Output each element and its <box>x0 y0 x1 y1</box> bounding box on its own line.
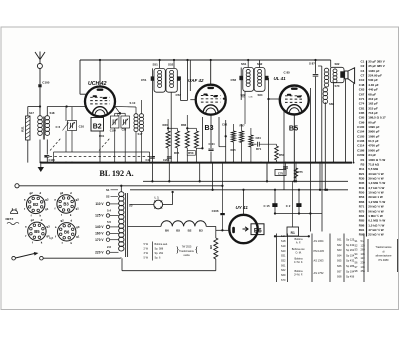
svg-text:A. F.: A. F. <box>296 241 301 245</box>
svg-text:g3: g3 <box>76 225 80 229</box>
svg-text:Bobina: Bobina <box>294 269 303 273</box>
svg-text:f: f <box>55 234 56 238</box>
svg-text:S61: S61 <box>337 238 342 242</box>
svg-text:R97: R97 <box>240 124 246 128</box>
svg-text:S2: S2 <box>354 243 358 247</box>
svg-text:d: d <box>39 191 41 195</box>
svg-text:C186: C186 <box>357 148 365 152</box>
svg-text:S3: S3 <box>129 204 133 208</box>
svg-text:S62: S62 <box>335 62 340 66</box>
svg-text:104: 104 <box>361 265 366 269</box>
svg-text:Sp 432: Sp 432 <box>346 243 355 247</box>
svg-text:Sp 125: Sp 125 <box>346 238 355 242</box>
svg-text:1090 pF: 1090 pF <box>368 125 379 129</box>
svg-text:C67: C67 <box>359 92 365 96</box>
svg-text:R71: R71 <box>359 205 365 209</box>
svg-text:R11: R11 <box>359 167 365 171</box>
svg-text:PM 1445: PM 1445 <box>314 249 325 253</box>
svg-text:2.6: 2.6 <box>107 245 111 249</box>
svg-text:4700 pF: 4700 pF <box>368 144 379 148</box>
svg-text:R3: R3 <box>360 162 364 166</box>
svg-text:Bobina aud.: Bobina aud. <box>155 243 169 246</box>
svg-text:B5: B5 <box>34 229 40 234</box>
svg-text:5,5 MΩ: 5,5 MΩ <box>368 167 379 171</box>
svg-text:Sp 261: Sp 261 <box>346 248 355 252</box>
svg-text:S61: S61 <box>281 263 286 267</box>
svg-text:S17: S17 <box>281 234 286 238</box>
svg-text:C10: C10 <box>79 124 85 128</box>
svg-text:160 V: 160 V <box>95 232 104 236</box>
svg-text:g3: g3 <box>45 198 49 202</box>
svg-text:S61: S61 <box>241 62 247 66</box>
svg-text:B6: B6 <box>165 228 169 232</box>
svg-text:NETZ: NETZ <box>6 217 14 221</box>
svg-text:g1: g1 <box>76 234 80 238</box>
svg-text:R21: R21 <box>359 172 365 176</box>
svg-text:f: f <box>24 207 25 211</box>
svg-text:d: d <box>70 219 72 223</box>
svg-text:S5: S5 <box>354 256 358 260</box>
svg-text:S51: S51 <box>281 254 286 258</box>
svg-text:125: 125 <box>361 243 366 247</box>
svg-text:R53: R53 <box>188 151 194 155</box>
svg-text:315 pF: 315 pF <box>368 106 378 110</box>
svg-text:g1: g1 <box>45 207 49 211</box>
svg-text:g3: g3 <box>46 225 50 229</box>
svg-text:35 µF 385 V: 35 µF 385 V <box>368 64 384 68</box>
svg-text:456: 456 <box>361 269 366 273</box>
svg-text:47 kΩ ½ W: 47 kΩ ½ W <box>368 228 383 232</box>
svg-text:B3: B3 <box>63 202 69 207</box>
svg-text:d: d <box>41 218 43 222</box>
svg-text:S1: S1 <box>106 188 110 192</box>
svg-text:34 pF: 34 pF <box>368 153 376 157</box>
svg-text:1340 pF: 1340 pF <box>368 69 379 73</box>
svg-text:S 87: S 87 <box>309 62 315 66</box>
svg-text:S6: S6 <box>354 261 358 265</box>
svg-text:S 10: S 10 <box>130 101 136 105</box>
svg-text:S20: S20 <box>281 249 286 253</box>
svg-text:R41: R41 <box>359 186 365 190</box>
svg-text:S52: S52 <box>281 258 286 262</box>
svg-text:1000 Ω ½ W: 1000 Ω ½ W <box>368 158 385 162</box>
svg-text:R53: R53 <box>359 195 365 199</box>
svg-text:S1: S1 <box>354 239 358 243</box>
svg-text:140 V: 140 V <box>95 225 104 229</box>
svg-text:5.4: 5.4 <box>107 209 111 213</box>
svg-text:S69: S69 <box>281 273 286 277</box>
svg-text:61,5 µF: 61,5 µF <box>368 139 378 143</box>
svg-text:10 kΩ ½ W: 10 kΩ ½ W <box>368 191 383 195</box>
svg-text:1090 pF: 1090 pF <box>368 134 379 138</box>
svg-text:1,5 kΩ ¼ W: 1,5 kΩ ¼ W <box>368 223 384 227</box>
svg-text:R75: R75 <box>298 170 304 174</box>
svg-text:g1: g1 <box>76 207 80 211</box>
svg-text:Sp 194: Sp 194 <box>346 269 355 273</box>
svg-text:C38: C38 <box>122 129 127 132</box>
svg-text:PS 4080: PS 4080 <box>379 258 390 262</box>
svg-text:S17: S17 <box>29 111 34 115</box>
svg-text:260: 260 <box>361 248 366 252</box>
svg-text:C 2: C 2 <box>286 204 291 208</box>
svg-text:B2: B2 <box>93 124 102 131</box>
svg-text:B2: B2 <box>33 202 39 207</box>
svg-text:1 MΩ ¼ W: 1 MΩ ¼ W <box>368 214 383 218</box>
svg-text:C104: C104 <box>110 129 117 132</box>
svg-text:C58: C58 <box>231 78 237 82</box>
svg-text:C4: C4 <box>360 69 364 73</box>
svg-text:Trasformatore: Trasformatore <box>375 245 392 249</box>
svg-text:Bobina: Bobina <box>294 257 303 261</box>
svg-text:g2: g2 <box>29 191 33 195</box>
svg-text:UCH 42: UCH 42 <box>88 81 107 87</box>
svg-text:C75: C75 <box>278 171 284 175</box>
svg-text:S19: S19 <box>281 244 286 248</box>
svg-text:440 pF: 440 pF <box>368 88 378 92</box>
svg-text:C 15: C 15 <box>264 204 270 208</box>
svg-text:UY 41: UY 41 <box>236 205 249 210</box>
svg-text:Sp. 6: Sp. 6 <box>155 257 161 260</box>
svg-text:4,7 kΩ ½ W: 4,7 kΩ ½ W <box>368 186 384 190</box>
svg-text:R35: R35 <box>359 181 365 185</box>
svg-text:56 kΩ ½ W: 56 kΩ ½ W <box>368 209 383 213</box>
svg-text:B6: B6 <box>254 227 262 234</box>
svg-text:Trasformatore: Trasformatore <box>179 250 195 253</box>
svg-text:L 1: L 1 <box>155 195 160 199</box>
svg-text:3 W: 3 W <box>144 252 149 255</box>
svg-text:1ª M. F.: 1ª M. F. <box>294 260 303 264</box>
svg-text:C 6: C 6 <box>56 125 61 129</box>
svg-text:R21: R21 <box>21 126 25 132</box>
svg-text:R05: R05 <box>174 151 180 155</box>
svg-text:C95: C95 <box>359 116 365 120</box>
svg-text:C1: C1 <box>360 60 364 64</box>
svg-text:224.90 pF: 224.90 pF <box>368 74 382 78</box>
svg-text:S8: S8 <box>354 269 358 273</box>
svg-text:43 kΩ ½ W: 43 kΩ ½ W <box>368 172 383 176</box>
svg-text:0,1 MΩ ½ W: 0,1 MΩ ½ W <box>368 219 385 223</box>
svg-text:S18: S18 <box>50 111 55 115</box>
svg-text:uscita: uscita <box>183 254 190 257</box>
svg-text:S64: S64 <box>337 253 342 257</box>
svg-text:22 kΩ ½ W: 22 kΩ ½ W <box>368 233 383 237</box>
svg-text:5 W: 5 W <box>144 257 149 260</box>
svg-text:C99: C99 <box>359 120 365 124</box>
svg-text:Sp 432: Sp 432 <box>346 259 355 263</box>
svg-text:S65: S65 <box>337 259 342 263</box>
svg-text:S63: S63 <box>337 248 342 252</box>
svg-text:4.30 µF: 4.30 µF <box>368 83 378 87</box>
svg-text:R86: R86 <box>359 223 365 227</box>
svg-text:220 V: 220 V <box>95 251 104 255</box>
svg-text:C92: C92 <box>222 123 228 127</box>
svg-text:5 W: 5 W <box>144 243 149 246</box>
svg-text:C106: C106 <box>212 209 219 213</box>
svg-text:B5: B5 <box>176 228 180 232</box>
svg-text:B3: B3 <box>199 228 203 232</box>
svg-text:S70: S70 <box>335 84 340 88</box>
svg-text:Bobina: Bobina <box>294 237 303 241</box>
svg-text:AS 1363: AS 1363 <box>314 259 325 263</box>
svg-text:110 V: 110 V <box>95 202 104 206</box>
svg-text:312 pF: 312 pF <box>368 97 378 101</box>
svg-text:S52: S52 <box>168 62 174 66</box>
svg-text:S2: S2 <box>106 194 110 198</box>
svg-text:AS 1004: AS 1004 <box>314 239 325 243</box>
svg-text:C81: C81 <box>359 106 365 110</box>
svg-text:7W 2925: 7W 2925 <box>182 246 192 249</box>
svg-text:C74: C74 <box>359 102 365 106</box>
svg-text:C2: C2 <box>360 64 364 68</box>
svg-text:S70: S70 <box>281 278 286 282</box>
svg-text:C100: C100 <box>42 80 50 84</box>
svg-text:B3: B3 <box>205 125 214 132</box>
svg-text:3900 pF: 3900 pF <box>368 130 379 134</box>
svg-text:C 85: C 85 <box>284 71 291 75</box>
svg-text:S62: S62 <box>281 268 286 272</box>
svg-text:Sp. 291: Sp. 291 <box>155 252 164 255</box>
svg-text:alimentazione: alimentazione <box>375 254 392 258</box>
svg-text:C84: C84 <box>256 136 262 140</box>
svg-text:R1: R1 <box>291 231 295 235</box>
svg-text:2 W: 2 W <box>144 247 149 250</box>
svg-text:C51: C51 <box>141 78 147 82</box>
svg-text:{: { <box>195 245 199 255</box>
svg-text:f: f <box>25 234 26 238</box>
svg-text:39 kΩ 1 W: 39 kΩ 1 W <box>368 195 383 199</box>
svg-text:R85: R85 <box>359 219 365 223</box>
svg-text:f: f <box>31 213 32 217</box>
svg-text:162 pF: 162 pF <box>368 102 378 106</box>
svg-text:UL 41: UL 41 <box>274 76 287 81</box>
svg-text:C10: C10 <box>359 78 365 82</box>
svg-text:C63: C63 <box>359 88 365 92</box>
svg-text:C100: C100 <box>357 125 365 129</box>
svg-text:S51: S51 <box>153 62 159 66</box>
svg-text:S4: S4 <box>354 252 358 256</box>
svg-text:B2: B2 <box>188 228 192 232</box>
svg-text:g3: g3 <box>76 197 80 201</box>
svg-text:g2: g2 <box>60 219 64 223</box>
svg-text:f: f <box>55 207 56 211</box>
svg-text:C85: C85 <box>359 111 365 115</box>
svg-text:BL 192 A.: BL 192 A. <box>99 169 133 178</box>
svg-text:R86: R86 <box>181 123 187 127</box>
svg-text:C104: C104 <box>209 143 216 146</box>
svg-text:5.5: 5.5 <box>107 220 111 224</box>
svg-text:Sp 154: Sp 154 <box>346 253 355 257</box>
svg-text:186,5 Ω 0.17: 186,5 Ω 0.17 <box>368 116 386 120</box>
svg-text:O. M.: O. M. <box>295 250 302 254</box>
svg-text:125 V: 125 V <box>95 214 104 218</box>
svg-text:S18: S18 <box>281 239 286 243</box>
svg-text:S66: S66 <box>337 264 342 268</box>
svg-text:Sp 286: Sp 286 <box>346 264 355 268</box>
svg-text:R84: R84 <box>359 214 365 218</box>
svg-text:R71: R71 <box>256 147 262 151</box>
svg-text:S62: S62 <box>337 243 342 247</box>
svg-text:R1: R1 <box>360 158 364 162</box>
svg-text:71,8 kΩ: 71,8 kΩ <box>368 162 379 166</box>
svg-text:Bobina osc.: Bobina osc. <box>292 247 306 251</box>
svg-text:R30: R30 <box>163 123 169 127</box>
svg-text:C106: C106 <box>357 139 365 143</box>
svg-text:C43: C43 <box>146 158 151 162</box>
svg-text:S67: S67 <box>337 269 342 273</box>
svg-text:2ª M. F.: 2ª M. F. <box>294 273 303 277</box>
svg-text:R91: R91 <box>359 228 365 232</box>
svg-text:90 pF: 90 pF <box>368 120 376 124</box>
svg-text:C114: C114 <box>357 144 364 148</box>
svg-text:134: 134 <box>361 252 366 256</box>
svg-text:Sp. 588: Sp. 588 <box>155 247 164 250</box>
svg-text:110: 110 <box>361 256 366 260</box>
svg-text:R8: R8 <box>209 245 213 249</box>
svg-text:R30: R30 <box>359 177 365 181</box>
svg-text:f: f <box>62 241 63 245</box>
svg-text:C7: C7 <box>360 74 364 78</box>
svg-text:UAF 42: UAF 42 <box>188 78 204 83</box>
svg-text:R50: R50 <box>359 191 365 195</box>
svg-text:1,3 MΩ ½ W: 1,3 MΩ ½ W <box>368 181 385 185</box>
svg-text:Kg3: Kg3 <box>49 237 54 240</box>
svg-text:170 V: 170 V <box>95 238 104 242</box>
svg-text:C204: C204 <box>163 158 170 162</box>
svg-text:S68: S68 <box>337 275 342 279</box>
svg-text:f: f <box>32 240 33 244</box>
svg-text:C48: C48 <box>359 83 365 87</box>
svg-text:C105: C105 <box>49 158 56 162</box>
svg-text:R75: R75 <box>359 209 365 213</box>
svg-text:530 pF: 530 pF <box>368 78 378 82</box>
svg-text:1,2 MΩ ½ W: 1,2 MΩ ½ W <box>368 200 385 204</box>
svg-text:39 kΩ ½ W: 39 kΩ ½ W <box>368 177 383 181</box>
svg-text:C104: C104 <box>357 130 365 134</box>
svg-text:B6: B6 <box>64 229 70 234</box>
svg-text:d: d <box>70 191 72 195</box>
svg-text:AS 1752: AS 1752 <box>314 271 325 275</box>
svg-text:C105: C105 <box>357 134 365 138</box>
svg-text:f: f <box>61 213 62 217</box>
svg-text:R66: R66 <box>359 200 365 204</box>
svg-text:230: 230 <box>361 261 366 265</box>
svg-text:68 pF: 68 pF <box>368 92 376 96</box>
svg-text:S17: S17 <box>138 132 143 136</box>
svg-text:S3: S3 <box>354 248 358 252</box>
svg-text:g2: g2 <box>31 218 35 222</box>
svg-text:B5: B5 <box>289 124 298 133</box>
svg-text:20 kΩ ½ W: 20 kΩ ½ W <box>368 205 383 209</box>
svg-text:35 µF 385 V: 35 µF 385 V <box>368 60 384 64</box>
svg-text:S7: S7 <box>354 265 358 269</box>
svg-text:C71: C71 <box>359 97 365 101</box>
svg-text:C209: C209 <box>357 153 365 157</box>
svg-text:5000 pF: 5000 pF <box>368 148 379 152</box>
svg-text:Sp 456: Sp 456 <box>346 275 355 279</box>
svg-text:S64: S64 <box>258 93 263 97</box>
svg-text:g2: g2 <box>60 191 64 195</box>
svg-text:713 pF: 713 pF <box>368 111 378 115</box>
